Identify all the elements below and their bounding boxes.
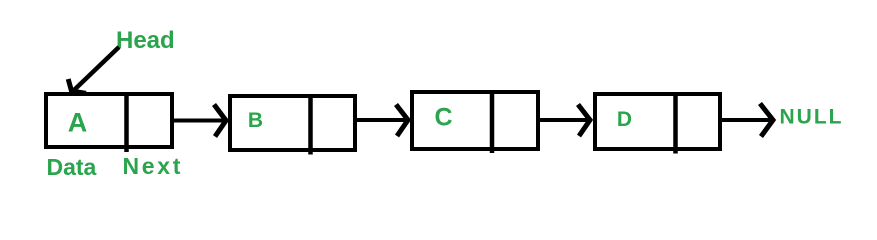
svg-text:Next: Next xyxy=(123,153,184,179)
arrow node1 to node2 xyxy=(170,105,226,137)
svg-text:C: C xyxy=(434,104,452,132)
arrow node3 to node4 xyxy=(536,105,590,137)
node 1 box xyxy=(46,94,172,147)
node 2 box xyxy=(230,96,355,150)
svg-text:Data: Data xyxy=(47,154,97,180)
svg-text:NULL: NULL xyxy=(780,106,844,129)
node 4 box xyxy=(595,94,720,149)
node 1 divider xyxy=(124,92,129,152)
label Data xyxy=(47,154,97,180)
svg-text:D: D xyxy=(617,108,632,131)
svg-text:A: A xyxy=(68,108,88,138)
svg-text:B: B xyxy=(248,109,263,132)
node 3 data value C xyxy=(434,104,452,132)
head pointer arrow xyxy=(68,47,119,93)
node 4 divider xyxy=(673,92,678,154)
node 2 divider xyxy=(308,94,313,155)
node 3 box xyxy=(412,92,538,149)
label NULL xyxy=(780,106,844,129)
node 1 data value A xyxy=(68,108,88,138)
node 2 data value B xyxy=(248,109,263,132)
svg-text:Head: Head xyxy=(116,27,175,54)
arrow node4 to NULL xyxy=(722,104,773,137)
node 3 divider xyxy=(490,90,495,153)
arrow node2 to node3 xyxy=(353,105,408,137)
node 4 data value D xyxy=(617,108,632,131)
label Head xyxy=(116,27,175,54)
label Next xyxy=(123,153,184,179)
